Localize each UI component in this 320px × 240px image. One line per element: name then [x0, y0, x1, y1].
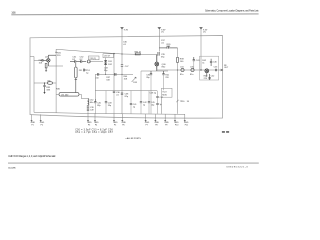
- wire stem third flag: [200, 31, 202, 70]
- capacitor C43: [193, 57, 195, 70]
- RF OUT arrow: [221, 69, 223, 71]
- svg-text:(T): (T): [203, 32, 206, 34]
- junction J5: [177, 69, 178, 70]
- svg-text:P8: P8: [155, 124, 157, 126]
- inductor L34: [181, 68, 184, 71]
- svg-text:82n: 82n: [180, 74, 183, 76]
- resistor R30: [45, 64, 47, 72]
- junction J2: [113, 53, 114, 54]
- svg-text:R34 51: R34 51: [135, 51, 142, 53]
- mod input box: [161, 88, 172, 97]
- pad pin 4: [94, 120, 99, 126]
- svg-text:P6: P6: [122, 124, 124, 126]
- inductor L36: [34, 82, 47, 84]
- range select box L33: [103, 54, 114, 58]
- capacitor C41: [130, 91, 132, 114]
- wire RF output line: [157, 69, 223, 71]
- pad pin 6: [121, 120, 126, 126]
- capacitor C31: [70, 60, 76, 63]
- wire stripline left: [56, 93, 59, 95]
- transistor Q30: [155, 55, 159, 72]
- power flag 9.3V second (node B): [158, 27, 161, 31]
- junction J8: [44, 82, 45, 83]
- inline resistor R34: [135, 53, 140, 55]
- wire stem from 9.3V flag: [121, 31, 123, 54]
- capacitor C36: [150, 71, 152, 114]
- pad pin 5: [113, 120, 118, 126]
- wire vertical R31 branch: [55, 49, 57, 113]
- wire left bus: [30, 57, 34, 113]
- capacitor C45: [148, 91, 150, 114]
- wire base to bus: [34, 59, 40, 61]
- svg-text:= ALL RF PORTS: = ALL RF PORTS: [125, 137, 141, 140]
- svg-text:Schematics, Component Location: Schematics, Component Location Diagrams,…: [205, 10, 259, 13]
- test point junction: [176, 100, 178, 102]
- svg-text:P9: P9: [165, 124, 167, 126]
- svg-text:P2: P2: [41, 124, 43, 126]
- rail stubs to pads: [32, 113, 185, 120]
- svg-text:L31 460: L31 460: [61, 94, 69, 96]
- capacitor C42: [140, 71, 142, 114]
- svg-text:33K: 33K: [46, 90, 50, 92]
- wire branch x122: [121, 54, 123, 65]
- capacitor C40: [94, 99, 96, 114]
- pad pin 11: [184, 120, 189, 126]
- svg-text:(T): (T): [161, 32, 164, 34]
- wire emitter splitter: [141, 70, 168, 72]
- svg-text:Y31 (2): Y31 (2): [89, 58, 96, 60]
- capacitor C49: [87, 109, 89, 110]
- wire C40 branch top: [94, 74, 96, 99]
- pad pin 2: [40, 120, 45, 126]
- svg-text:68n: 68n: [90, 102, 93, 104]
- capacitor C59 stack: [156, 91, 158, 114]
- svg-text:P11: P11: [185, 124, 188, 126]
- footer rule: [8, 162, 259, 164]
- svg-text:Dec 1, 1995: Dec 1, 1995: [8, 168, 16, 170]
- inductor L32 coil: [88, 99, 89, 105]
- svg-text:P5: P5: [114, 124, 116, 126]
- pad pin 8: [154, 120, 159, 126]
- wire varactor stem: [105, 58, 107, 75]
- note dash right: [222, 131, 225, 132]
- svg-text:1-16: 1-16: [11, 10, 16, 14]
- svg-text:9.3V: 9.3V: [124, 29, 129, 31]
- svg-text:82n: 82n: [190, 74, 193, 76]
- svg-text:P7: P7: [146, 124, 148, 126]
- capacitor C32: [76, 60, 86, 63]
- junction J6: [200, 69, 201, 70]
- capacitor C34 inline: [115, 73, 116, 76]
- svg-text:6880903Z21-O: 6880903Z21-O: [227, 166, 249, 168]
- svg-text:MOD: MOD: [162, 95, 167, 97]
- shield box: [200, 56, 219, 80]
- inductor L35: [191, 68, 194, 71]
- capacitor C46 in shield: [210, 59, 212, 66]
- wire stripline right: [79, 94, 88, 98]
- pad pin 1: [30, 120, 35, 126]
- junction J1: [55, 52, 56, 53]
- wire emitter run: [48, 65, 63, 67]
- capacitor C50 inline: [98, 73, 99, 76]
- capacitor C48: [105, 91, 107, 114]
- junction J7: [121, 53, 122, 54]
- wire tuning line: [95, 73, 133, 75]
- capacitor C53 inline: [215, 69, 216, 72]
- crystal Y31 box label: [89, 56, 100, 60]
- pad pin 7: [145, 120, 150, 126]
- junction J3: [105, 74, 106, 75]
- svg-text:VCO: VCO: [162, 92, 167, 94]
- varactor D32: [104, 63, 106, 65]
- svg-text:P10: P10: [175, 124, 178, 126]
- power flag 9.3V (node A): [121, 27, 124, 31]
- svg-text:L33 2T: L33 2T: [104, 56, 111, 58]
- svg-text:P4: P4: [95, 124, 97, 126]
- pad pin 10: [174, 120, 179, 126]
- capacitor C51b cluster: [83, 69, 86, 72]
- capacitor C51 stub: [207, 73, 211, 80]
- wire mid lower bus: [95, 90, 157, 92]
- resonator vertical pill: [75, 63, 78, 93]
- capacitor C31a at Q31 base: [40, 59, 46, 62]
- svg-text:UHF VCO Ranges 1, 2, 3, and 4: UHF VCO Ranges 1, 2, 3, and 4 Hybrid Sch…: [8, 154, 56, 158]
- junction J4: [121, 74, 122, 75]
- resistor R38: [177, 57, 179, 62]
- wire R38 branch: [177, 48, 179, 58]
- capacitor C39: [87, 105, 89, 114]
- arrow tuning: [132, 77, 136, 82]
- inductor L30: [87, 60, 90, 63]
- stripline pill: [59, 93, 79, 97]
- capacitor C44 emitter: [162, 71, 164, 90]
- capacitor C55: [43, 83, 45, 92]
- transistor Q32 buffer: [205, 69, 209, 73]
- capacitor C35: [158, 52, 159, 56]
- ground rail: [34, 112, 185, 114]
- wire collector run (node OSC): [56, 49, 157, 54]
- svg-text:C58 1p: C58 1p: [150, 93, 157, 95]
- pad pin 9: [164, 120, 169, 126]
- capacitor C30 shunt: [113, 91, 115, 114]
- svg-text:P3: P3: [88, 124, 90, 126]
- svg-text:C51 = 4.7pF C54 = 18pF C57: C51 = 4.7pF C54 = 18pF C57: [75, 132, 113, 134]
- capacitor C37b: [121, 65, 123, 66]
- schematic border box: [30, 36, 223, 119]
- header rule: [11, 13, 258, 16]
- wire osc to varactor: [89, 61, 103, 63]
- ground arrow: [43, 92, 45, 94]
- svg-text:P1: P1: [31, 124, 33, 126]
- wire stem second flag: [158, 31, 160, 52]
- capacitor C38: [121, 93, 123, 94]
- power flag 9.3V third (node C): [200, 27, 203, 31]
- varactor D31: [104, 60, 106, 62]
- pad pin 3: [87, 120, 92, 126]
- wire branch x114: [113, 54, 115, 91]
